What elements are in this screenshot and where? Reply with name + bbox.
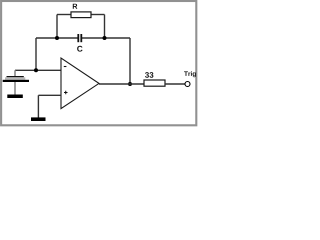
capacitor C left plate xyxy=(77,34,79,42)
wire: battery top stub xyxy=(14,70,16,76)
wire: feedback down to inverting input xyxy=(35,38,37,70)
border frame xyxy=(1,1,196,125)
node: junction output xyxy=(128,82,132,86)
op-amp plus sign xyxy=(64,91,68,95)
wire: feedback line left segment (to capacitor) xyxy=(36,37,78,39)
wire: resistor 33 to terminal xyxy=(165,83,185,85)
battery top plate xyxy=(7,76,24,77)
label Trig xyxy=(184,71,196,77)
op-amp U1 triangle xyxy=(61,58,99,109)
op-amp minus sign xyxy=(64,66,67,68)
wire: battery bottom stub xyxy=(14,82,16,95)
node: junction R-branch right xyxy=(103,36,107,40)
battery bottom plate xyxy=(3,80,29,82)
wire: output to resistor 33 xyxy=(99,83,144,85)
wire: left vertical of R branch xyxy=(56,15,58,39)
terminal Trig circle xyxy=(185,82,190,87)
ground G2 bar xyxy=(31,117,46,121)
wire: non-inverting down to ground xyxy=(37,95,39,117)
battery body (gray slab) xyxy=(5,77,25,80)
capacitor C right plate xyxy=(80,34,82,42)
wire: R branch top, left lead xyxy=(57,14,71,16)
ground G1 bar xyxy=(7,95,22,99)
wire: feedback right vertical to output xyxy=(129,38,131,84)
wire: inverting input line xyxy=(15,69,61,71)
node: junction R-branch left xyxy=(55,36,59,40)
resistor R body xyxy=(71,12,91,18)
label C xyxy=(77,46,82,52)
wire: R branch top, right lead xyxy=(91,14,105,16)
wire: non-inverting input line xyxy=(38,94,61,96)
wire: right vertical of R branch xyxy=(104,15,106,39)
wire: feedback line right segment (capacitor to corner) xyxy=(82,37,130,39)
label R xyxy=(73,4,78,9)
label 33 xyxy=(145,72,153,78)
node: junction inverting input xyxy=(34,68,38,72)
resistor 33 body xyxy=(144,80,165,86)
